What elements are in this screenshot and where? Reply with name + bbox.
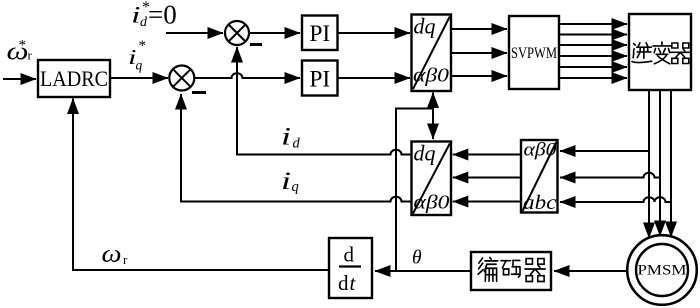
svg-text:d: d — [293, 136, 301, 152]
summing junction d-axis — [225, 21, 249, 45]
wire abc transform to dq transform 1 — [453, 154, 521, 156]
block SVPWM — [509, 16, 559, 89]
svg-text:d: d — [140, 15, 148, 30]
block LADRC — [38, 60, 110, 97]
wire SVPWM to inverter 1 — [559, 23, 627, 25]
wire id feedback to d-axis summing junction with hop — [237, 47, 412, 155]
wire transform output 1 to SVPWM — [451, 28, 507, 30]
svg-text:*: * — [19, 38, 27, 54]
wire SVPWM to inverter 3 — [559, 44, 627, 46]
motor PMSM inner circle — [636, 244, 688, 296]
wire transform output 3 to SVPWM — [451, 75, 507, 77]
block dq to alpha-beta transform — [412, 15, 452, 92]
svg-text:dq: dq — [414, 141, 436, 166]
svg-text:αβ0: αβ0 — [524, 141, 558, 161]
minus sign at d-axis summing junction — [250, 43, 262, 46]
label iq* — [128, 38, 146, 73]
wire phase a tap to abc transform — [560, 150, 649, 152]
svg-text:=0: =0 — [148, 0, 177, 30]
svg-text:LADRC: LADRC — [40, 66, 108, 91]
wire phase a from inverter to PMSM — [648, 90, 650, 238]
block inverter — [629, 14, 691, 90]
svg-text:r: r — [123, 252, 128, 267]
svg-text:dq: dq — [414, 14, 436, 39]
minus sign at q-axis summing junction — [192, 91, 206, 94]
svg-text:θ: θ — [412, 248, 422, 269]
fraction bar of d/dt — [339, 265, 361, 267]
wire PI2 to dq/ab0 transform — [338, 77, 411, 79]
svg-text:SVPWM: SVPWM — [511, 45, 557, 62]
svg-text:αβ0: αβ0 — [413, 65, 449, 86]
wire SVPWM to inverter 5 — [559, 66, 627, 68]
label inverter chinese ni-bian-qi — [632, 42, 690, 64]
block alpha-beta to abc transform — [521, 140, 558, 213]
wire phase c from inverter to PMSM — [670, 90, 672, 237]
wire encoder to d/dt block — [375, 270, 471, 272]
svg-text:i: i — [281, 124, 291, 151]
wire PI1 to dq/ab0 transform — [338, 32, 411, 34]
wire transform output 2 to SVPWM — [451, 52, 507, 54]
wire phase c tap to abc transform with two hops — [560, 197, 671, 202]
wire abc transform to dq transform 2 — [453, 177, 521, 179]
svg-text:t: t — [350, 271, 357, 295]
wire LADRC output to q-axis summing junction — [110, 77, 168, 79]
svg-text:αβ0: αβ0 — [414, 193, 450, 214]
block alpha-beta to dq transform — [412, 142, 452, 216]
wire theta branch vertical and corner — [396, 109, 433, 271]
block d/dt differentiator — [329, 238, 372, 298]
wire id*=0 reference into d-axis summing junction — [166, 32, 223, 34]
svg-text:d: d — [338, 271, 349, 295]
wire SVPWM to inverter 4 — [559, 55, 627, 57]
summing junction q-axis — [169, 66, 194, 91]
wire speed feedback from d/dt to LADRC — [73, 99, 329, 271]
svg-text:ω: ω — [102, 241, 122, 268]
motor PMSM outer circle — [627, 235, 697, 305]
svg-text:q: q — [136, 58, 143, 73]
label omega-r feedback — [102, 241, 129, 268]
wire phase b tap to abc transform with hop — [560, 173, 660, 178]
wire theta arrow up into dq/ab0 transform — [432, 93, 434, 111]
svg-text:q: q — [292, 179, 299, 195]
label iq feedback — [281, 168, 299, 195]
svg-text:abc: abc — [523, 192, 557, 214]
label encoder chinese bian-ma-qi — [478, 258, 545, 282]
wire PMSM to encoder — [554, 270, 628, 272]
wire d-axis summing junction to PI1 (hop over id feedback line) — [249, 32, 300, 34]
wire phase b from inverter to PMSM — [659, 90, 661, 236]
block PI2 — [302, 61, 338, 96]
svg-text:PMSM: PMSM — [638, 263, 687, 279]
svg-text:*: * — [139, 38, 147, 54]
svg-text:PI: PI — [309, 21, 330, 47]
wire speed reference input to LADRC — [3, 78, 36, 80]
wire iq feedback to q-axis summing junction with hop — [181, 94, 412, 202]
wire q-axis summing junction to PI2 with crossing hop — [194, 73, 300, 78]
label id*=0 — [131, 0, 177, 30]
block encoder — [471, 252, 551, 290]
wire SVPWM to inverter 6 — [559, 77, 627, 79]
label omega-r-star input — [7, 38, 33, 66]
wire abc transform to dq transform 3 — [453, 201, 521, 203]
svg-text:r: r — [28, 48, 33, 63]
svg-text:i: i — [281, 168, 291, 195]
wire theta arrow down into ab0/dq transform — [432, 107, 434, 139]
label id feedback — [281, 124, 301, 152]
wire SVPWM to inverter 2 — [559, 34, 627, 36]
block PI1 — [302, 16, 338, 51]
svg-text:d: d — [344, 243, 355, 267]
label d over dt — [338, 243, 357, 296]
svg-text:PI: PI — [309, 66, 330, 92]
